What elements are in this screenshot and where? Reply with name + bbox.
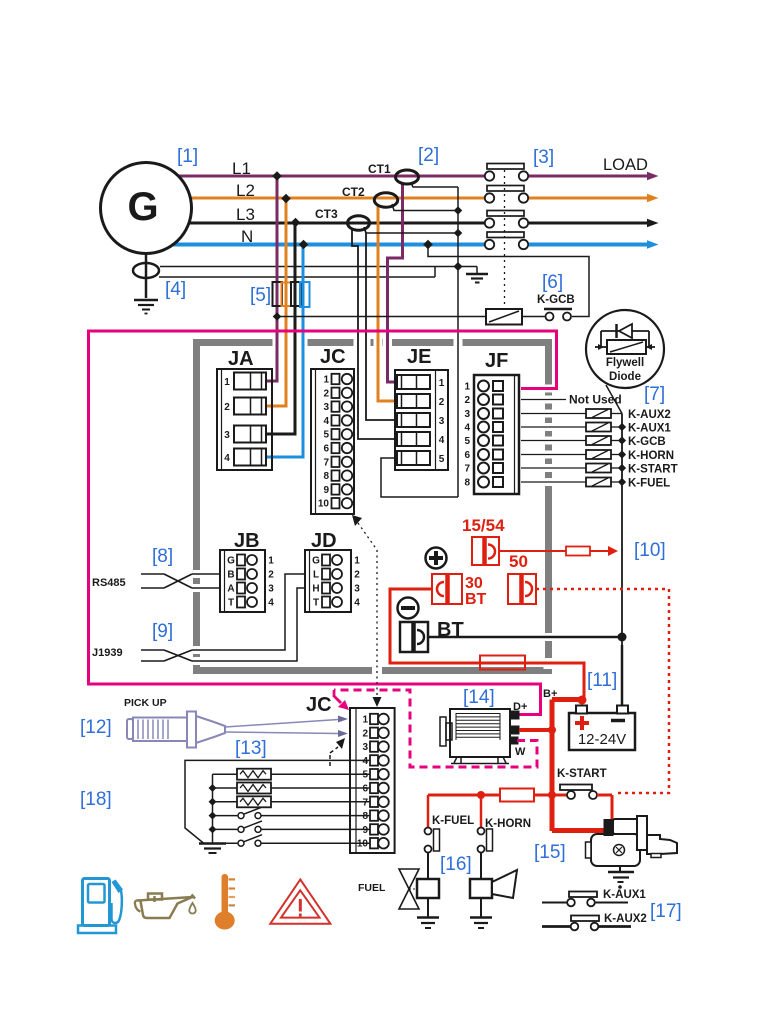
svg-text:Diode: Diode (609, 371, 641, 383)
key switch 15/54 (472, 537, 499, 565)
label RS485 (92, 577, 126, 589)
connector JF (464, 375, 519, 494)
node relay bus K-GCB (611, 436, 626, 444)
svg-text:[15]: [15] (534, 842, 566, 863)
dashed arrow [13] to JC pin (330, 738, 345, 766)
label L1 (232, 159, 251, 178)
wire 30BT to battery fuse line (390, 589, 584, 700)
label W (515, 746, 526, 758)
wire orange sense L2 to JA2 (266, 198, 286, 406)
wire K-AUX2 to flywheel diode (606, 385, 622, 414)
label N (241, 227, 253, 246)
label K-GCB (628, 436, 666, 448)
label [15] (534, 842, 566, 863)
svg-text:K-START: K-START (628, 464, 678, 476)
svg-text:[14]: [14] (463, 687, 495, 708)
svg-text:K-AUX2: K-AUX2 (628, 409, 671, 421)
svg-text:[11]: [11] (587, 670, 617, 691)
relay coil K-GCB (586, 436, 611, 445)
current transformer CT3 (315, 207, 370, 230)
svg-text:[16]: [16] (440, 854, 472, 875)
svg-text:3: 3 (362, 742, 368, 753)
label FUEL (358, 882, 386, 894)
svg-text:[12]: [12] (80, 717, 112, 738)
svg-text:J1939: J1939 (92, 647, 123, 659)
svg-text:3: 3 (354, 584, 360, 595)
connector JA (217, 369, 272, 470)
relay coil K-GCB (486, 309, 522, 325)
label [4] (165, 279, 186, 300)
ground symbol mid (466, 267, 488, 283)
resistive sender 3 (213, 796, 370, 807)
node relay bus K-FUEL (611, 478, 626, 486)
label B+ (543, 688, 557, 700)
svg-text:[17]: [17] (650, 901, 682, 922)
svg-text:2: 2 (464, 395, 470, 406)
wire JF4 to relay coil K-AUX1 (521, 426, 586, 428)
label K-AUX1 (628, 423, 671, 435)
label K-GCB (537, 294, 575, 306)
svg-text:K-START: K-START (557, 768, 607, 780)
resistive sender 2 (213, 783, 370, 794)
svg-text:2: 2 (224, 402, 230, 413)
svg-text:7: 7 (323, 457, 329, 468)
label K-AUX2 (628, 409, 671, 421)
label K-START (628, 464, 678, 476)
label [1] (177, 146, 198, 167)
wire L3 (black) generator to breaker (145, 222, 484, 225)
svg-text:4: 4 (362, 756, 368, 767)
wire purple sense L1 to JA1 (266, 176, 277, 381)
arrow magenta into JC (334, 690, 349, 710)
icon fuel pump (78, 879, 123, 934)
label [18] (80, 789, 112, 810)
svg-text:10: 10 (357, 839, 369, 850)
relay coil K-AUX1 (586, 423, 611, 432)
svg-text:[7]: [7] (644, 384, 665, 405)
svg-text:1: 1 (323, 375, 329, 386)
label [2] (418, 145, 439, 166)
svg-text:6: 6 (362, 784, 368, 795)
svg-text:LOAD: LOAD (603, 156, 648, 174)
node tap N (299, 240, 309, 250)
svg-text:2: 2 (362, 728, 368, 739)
label JD (311, 530, 337, 552)
svg-text:[3]: [3] (533, 147, 554, 168)
wire JF6 to relay coil K-HORN (521, 454, 586, 456)
CT1 return lead (411, 183, 458, 187)
gray border white gaps for wire crossings (192, 337, 554, 676)
label 50 (509, 552, 528, 571)
svg-text:15/54: 15/54 (462, 516, 505, 535)
label JA (228, 348, 254, 370)
ground under K-FUEL (417, 918, 439, 929)
current transformer CT2 (342, 185, 398, 207)
svg-text:L3: L3 (236, 205, 255, 224)
svg-text:[4]: [4] (165, 279, 186, 300)
node tap L2 (281, 194, 291, 204)
svg-text:B+: B+ (543, 688, 557, 700)
connector JC top (311, 369, 354, 514)
svg-text:JC: JC (306, 694, 332, 716)
label BT red (465, 591, 487, 608)
fuse on battery line [11] (480, 656, 525, 670)
wire 50 dotted to starter (536, 589, 669, 793)
svg-text:JC: JC (320, 346, 346, 368)
CT2 return lead (392, 204, 458, 211)
connector JE (395, 370, 448, 470)
svg-text:RS485: RS485 (92, 577, 126, 589)
svg-text:L1: L1 (232, 159, 251, 178)
svg-text:[6]: [6] (542, 272, 563, 293)
svg-text:[2]: [2] (418, 145, 439, 166)
relay coil K-FUEL (586, 478, 611, 487)
connector JD (305, 550, 360, 612)
svg-text:3: 3 (268, 584, 274, 595)
svg-text:3: 3 (323, 402, 329, 413)
label [6] (542, 272, 563, 293)
starter motor M (586, 816, 678, 866)
svg-text:A: A (227, 584, 234, 595)
svg-text:BT: BT (465, 591, 487, 608)
ground symbol under generator (134, 300, 158, 314)
label [11] (587, 670, 617, 691)
current transformer CT1 (368, 162, 419, 184)
svg-text:[18]: [18] (80, 789, 112, 810)
svg-text:K-AUX1: K-AUX1 (603, 889, 646, 901)
key switch BT (400, 622, 428, 652)
svg-text:[9]: [9] (152, 621, 173, 642)
svg-text:7: 7 (362, 797, 368, 808)
label [3] (533, 147, 554, 168)
svg-text:30: 30 (465, 575, 483, 592)
connector linkage dotted JC (352, 515, 382, 707)
svg-text:1: 1 (354, 556, 360, 567)
svg-text:K-FUEL: K-FUEL (432, 815, 474, 827)
wire JF3 to relay coil K-AUX2 (521, 413, 586, 415)
svg-text:6: 6 (323, 444, 329, 455)
relay coil K-START (586, 464, 611, 473)
pickup sensor (127, 712, 225, 748)
resistive sender 1 (213, 769, 370, 780)
alternator sense dashed loop (magenta) (334, 690, 537, 767)
battery 12-24V (569, 706, 635, 751)
svg-text:H: H (312, 584, 319, 595)
label [7] (644, 384, 665, 405)
label K-HORN coil (485, 818, 531, 830)
svg-text:JA: JA (228, 348, 254, 370)
svg-text:CT3: CT3 (315, 207, 338, 221)
fuse block [5] pole 3 (291, 282, 301, 306)
contact K-AUX2 aux switch (542, 916, 631, 931)
svg-text:K-GCB: K-GCB (537, 294, 575, 306)
svg-text:8: 8 (362, 811, 368, 822)
ground under starter (608, 866, 634, 889)
label [10] (634, 540, 666, 561)
twisted pair RS485 (141, 574, 220, 588)
fuse block [5] pole 4 (300, 282, 310, 307)
svg-text:G: G (227, 556, 235, 567)
node tap L3 (291, 218, 301, 228)
wire JF5 to relay coil K-GCB (521, 440, 586, 442)
svg-text:1: 1 (268, 556, 274, 567)
svg-text:1: 1 (224, 377, 230, 388)
horn symbol (492, 870, 517, 898)
svg-text:2: 2 (354, 570, 360, 581)
svg-text:9: 9 (323, 485, 329, 496)
breaker [3] pole 1 (485, 164, 659, 181)
svg-text:[10]: [10] (634, 540, 666, 561)
node tap L1 (272, 171, 282, 181)
svg-text:K-FUEL: K-FUEL (628, 478, 670, 490)
svg-text:4: 4 (268, 598, 274, 609)
ground under K-HORN (470, 918, 492, 929)
breaker [3] pole 3 (485, 211, 659, 228)
wire JC4 bus (185, 760, 370, 843)
svg-text:3: 3 (224, 430, 230, 441)
CT3 return lead (366, 232, 458, 234)
svg-text:JB: JB (234, 530, 260, 552)
fuse block [5] pole 1 (273, 282, 283, 306)
label Not Used (569, 393, 622, 407)
wire generator neutral drop (145, 254, 148, 299)
relay coil box K-FUEL (417, 879, 439, 917)
wire 15/54 output with fuse (499, 546, 618, 556)
node relay bus K-START (611, 464, 626, 472)
fuel valve symbol (399, 869, 419, 909)
svg-text:1: 1 (362, 715, 368, 726)
label K-AUX2 switch (604, 913, 647, 925)
wire L2 (orange) generator to breaker (145, 197, 484, 200)
label D+ (513, 701, 527, 713)
label J1939 (92, 647, 123, 659)
relay coil K-HORN (586, 450, 611, 459)
wire starter feed (552, 828, 606, 833)
relay coil K-AUX2 (586, 409, 611, 418)
label JF (485, 350, 508, 372)
label [9] (152, 621, 173, 642)
svg-text:Flywell: Flywell (606, 357, 644, 369)
svg-text:10: 10 (318, 499, 330, 510)
svg-text:5: 5 (323, 430, 329, 441)
svg-text:5: 5 (464, 436, 470, 447)
wire blue sense N to JA4 (266, 245, 303, 458)
wire alternator B+ to feed (519, 726, 556, 734)
label PICK UP (124, 697, 167, 709)
relay coil box K-HORN (470, 879, 492, 917)
label JE (407, 346, 431, 368)
label [5] (250, 285, 271, 306)
label [8] (152, 546, 173, 567)
label BT (437, 619, 464, 641)
wire controller power loop (magenta) (89, 331, 557, 715)
svg-text:JE: JE (407, 346, 431, 368)
switch sender 2 (213, 821, 370, 833)
svg-text:4: 4 (323, 416, 329, 427)
label [16] (440, 854, 472, 875)
fuse block [5] pole 2 (282, 283, 292, 307)
svg-text:7: 7 (464, 464, 470, 475)
svg-text:K-HORN: K-HORN (628, 450, 674, 462)
wire relay bus to battery minus (621, 414, 623, 706)
twisted pair J1939 to JD (141, 574, 305, 661)
svg-text:[1]: [1] (177, 146, 198, 167)
svg-text:[13]: [13] (235, 738, 267, 759)
CT2 lead to JE2 (orange) (378, 205, 397, 401)
label K-FUEL coil (432, 815, 474, 827)
svg-text:50: 50 (509, 552, 528, 571)
svg-text:JD: JD (311, 530, 337, 552)
label [17] (650, 901, 682, 922)
svg-text:T: T (313, 598, 319, 609)
svg-text:PICK UP: PICK UP (124, 697, 167, 709)
connector JC bottom (350, 708, 395, 853)
label [13] (235, 738, 267, 759)
svg-text:3: 3 (464, 409, 470, 420)
wire battery junction to main feed (552, 700, 583, 832)
node relay bus K-HORN (611, 450, 626, 458)
wire drop K-FUEL (427, 795, 430, 827)
svg-text:5: 5 (439, 454, 445, 465)
node relay bus K-AUX1 (611, 423, 626, 431)
resistor in flywheel circle (595, 340, 655, 354)
svg-text:W: W (515, 746, 526, 758)
label L2 (236, 181, 255, 200)
wire JE5 loop (381, 458, 458, 497)
grounding CT ellipse [4] (133, 263, 159, 278)
icon oil can (135, 894, 196, 919)
diode D1 in flywheel circle (601, 324, 649, 347)
wire battery minus (621, 645, 624, 706)
label LOAD (603, 156, 648, 174)
flywheel diode circle [7] (586, 310, 664, 388)
label JC bottom (306, 694, 332, 716)
contact K-AUX1 aux switch (542, 892, 628, 907)
wire earth line upper (160, 266, 477, 268)
switch sender 1 (213, 807, 370, 819)
wire pickup lead 2 (225, 730, 348, 737)
CT3 lead to JE4 (black) (352, 228, 397, 439)
svg-text:T: T (228, 598, 234, 609)
breaker [3] pole 2 (485, 186, 659, 203)
svg-text:JF: JF (485, 350, 508, 372)
wire JF1 magenta handled above; Not Used stub JF2 (521, 399, 566, 401)
label JC top (320, 346, 346, 368)
icon warning triangle (270, 880, 330, 924)
svg-text:CT2: CT2 (342, 185, 365, 199)
node battery plus junction (578, 696, 587, 705)
svg-text:2: 2 (268, 570, 274, 581)
svg-text:N: N (241, 227, 253, 246)
wire JF7 to relay coil K-START (521, 467, 586, 469)
breaker linkage dotted line (504, 170, 506, 306)
svg-text:3: 3 (439, 416, 445, 427)
breaker [3] pole 4 (485, 232, 659, 249)
CT3 lead to JE3 (black) (364, 227, 397, 420)
contact K-FUEL (425, 828, 440, 880)
svg-text:1: 1 (439, 378, 445, 389)
generator G (101, 163, 192, 254)
svg-text:6: 6 (464, 450, 470, 461)
key switch 30 BT (432, 574, 462, 604)
wire drop K-HORN (480, 795, 483, 827)
controller box (gray border) (197, 343, 549, 671)
label [12] (80, 717, 112, 738)
svg-text:K-GCB: K-GCB (628, 436, 666, 448)
wire BT to battery minus (428, 633, 627, 642)
label K-START (557, 768, 607, 780)
svg-text:9: 9 (362, 825, 368, 836)
svg-text:B: B (227, 570, 234, 581)
svg-text:K-AUX1: K-AUX1 (628, 423, 671, 435)
svg-text:5: 5 (362, 770, 368, 781)
label K-FUEL (628, 478, 670, 490)
svg-text:K-AUX2: K-AUX2 (604, 913, 647, 925)
wire JF8 to relay coil K-FUEL (521, 481, 586, 483)
CT1 lead to JE1 (purple) (388, 183, 403, 382)
svg-text:4: 4 (224, 453, 230, 464)
contact K-START (428, 785, 612, 829)
wire pickup lead 1 (225, 716, 348, 728)
svg-text:4: 4 (354, 598, 360, 609)
svg-text:G: G (312, 556, 320, 567)
label 30 (465, 575, 483, 592)
svg-text:4: 4 (464, 423, 470, 434)
icon thermometer (215, 874, 235, 930)
minus terminal symbol (398, 598, 419, 619)
svg-text:2: 2 (439, 397, 445, 408)
contact K-GCB (544, 309, 572, 321)
wire earth line lower with jog (159, 267, 435, 278)
label [14] (463, 687, 495, 708)
wire CT common return vertical / JE5 loop riser (453, 187, 462, 497)
wire coil feed (273, 312, 486, 320)
svg-text:1: 1 (464, 382, 470, 393)
svg-text:12-24V: 12-24V (578, 731, 626, 748)
svg-text:L: L (313, 570, 319, 581)
wire sensor common bus (209, 774, 217, 843)
wire N tap to K-GCB loop (423, 240, 589, 317)
label JB (234, 530, 260, 552)
connector JB (220, 550, 274, 612)
label 15/54 (462, 516, 505, 535)
svg-text:[5]: [5] (250, 285, 271, 306)
key switch 50 (508, 574, 536, 604)
svg-text:L2: L2 (236, 181, 255, 200)
svg-text:G: G (127, 185, 158, 229)
alternator [14] (440, 709, 519, 764)
wire N (blue) generator to breaker (145, 243, 484, 247)
svg-text:8: 8 (464, 478, 470, 489)
svg-text:D+: D+ (513, 701, 527, 713)
label L3 (236, 205, 255, 224)
switch sender 3 (213, 835, 370, 847)
contact K-HORN (478, 828, 493, 880)
svg-text:FUEL: FUEL (358, 882, 386, 894)
wire black sense L3 to JA3 (266, 223, 295, 434)
label Flywell Diode (606, 357, 644, 383)
plus terminal symbol (426, 548, 447, 569)
svg-text:K-HORN: K-HORN (485, 818, 531, 830)
label K-AUX1 switch (603, 889, 646, 901)
svg-text:8: 8 (323, 471, 329, 482)
label K-HORN (628, 450, 674, 462)
svg-text:2: 2 (323, 388, 329, 399)
wire coil to contact (522, 316, 545, 318)
wire L1 (purple) generator to breaker (145, 175, 484, 178)
svg-text:CT1: CT1 (368, 162, 391, 176)
svg-text:[8]: [8] (152, 546, 173, 567)
